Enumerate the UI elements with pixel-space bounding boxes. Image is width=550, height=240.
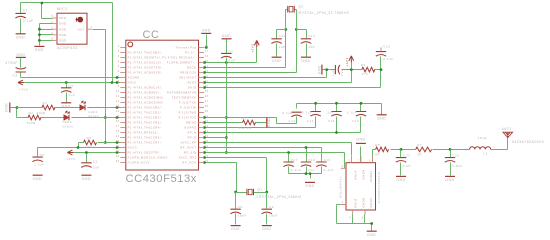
svg-text:16P: 16P [308,45,315,49]
svg-text:C19: C19 [324,158,331,162]
MIC1 pins [52,17,57,19]
svg-text:56k 1%: 56k 1% [239,126,252,130]
svg-text:2: 2 [348,160,350,163]
wire C2 top stem [20,3,22,14]
svg-text:P1.4/TA1.UCB0SOMI/..: P1.4/TA1.UCB0SOMI/.. [128,101,167,105]
svg-text:P1.7/TA1.UCA0CLK/..: P1.7/TA1.UCA0CLK/.. [128,61,164,65]
svg-text:+3V3: +3V3 [66,157,75,161]
wire C4 stem from +3V3 row [66,83,68,88]
node r4 junctions [203,61,228,64]
svg-text:1uF: 1uF [229,59,236,63]
MCU right pin names [162,46,196,165]
MCU right pin stubs and numbers [199,48,205,163]
svg-text:37: 37 [205,100,209,103]
ground below balun [367,230,377,232]
capacitor C13 [291,112,301,117]
svg-text:C6: C6 [229,49,234,53]
wire MIC OUT down to LED2/R6 column [93,30,106,143]
wire pin r9 row to R4/C10 node [205,57,381,88]
crystal Q2 [288,6,295,13]
svg-text:C18: C18 [308,158,315,162]
wire thermal pad pin to GND above [205,35,207,48]
svg-text:0.1uF: 0.1uF [347,110,357,114]
svg-text:RF_P: RF_P [188,136,197,140]
svg-text:+3V3: +3V3 [345,57,349,66]
node r7 junctions [203,68,328,79]
svg-text:Green: Green [88,114,99,118]
svg-text:44: 44 [205,65,209,68]
svg-text:DVCC: DVCC [128,146,138,150]
wire pin r7 row to side GND / C21 [205,70,336,78]
svg-text:6: 6 [118,70,120,73]
wire R6 row to pin 20 [79,143,121,148]
svg-text:P1.4/TA1.TA0CCR0/..: P1.4/TA1.TA0CCR0/.. [128,106,164,110]
ground below decoupling rail [377,114,387,116]
node r23 junctions [203,156,268,193]
svg-text:GUARD: GUARD [184,126,196,130]
wire pin r5 row to crystal Q2 left [205,30,286,68]
wire pin r24 row to crystal Q1 left [205,163,237,193]
svg-text:GND: GND [35,48,44,52]
sideways ground left of C21 [321,65,323,75]
svg-text:R7: R7 [417,143,422,147]
svg-text:P1.4/TA1.TA0CCR3/..: P1.4/TA1.TA0CCR3/.. [128,121,164,125]
wire MIC GND pins to ground rail [40,24,53,46]
capacitor C8 [230,209,240,214]
svg-text:CRYSTAL_2PIN_32.768KHZ: CRYSTAL_2PIN_32.768KHZ [296,11,349,15]
svg-text:4: 4 [342,201,344,204]
svg-text:P1.4/TA1.RF2GUA/..: P1.4/TA1.RF2GUA/.. [162,56,196,60]
svg-text:470NF: 470NF [5,61,17,65]
svg-text:30: 30 [205,135,209,138]
svg-text:P1.4/TA1.UCB0ES/..: P1.4/TA1.UCB0ES/.. [128,91,162,95]
node RF row junctions [400,148,452,151]
svg-text:8: 8 [118,80,120,83]
node C6 vertical junctions [225,116,228,154]
wire pin r17 row to C14 bottom [205,117,316,128]
svg-text:C5: C5 [40,153,45,157]
supply +3V3 arrow up right of C6 [254,40,259,47]
capacitor C14 [310,112,320,117]
svg-text:P1.6/TA1.CBOWTV/..: P1.6/TA1.CBOWTV/.. [128,56,163,60]
MCU U1 CC430F513x box [126,40,199,170]
svg-text:GND: GND [59,33,66,37]
capacitor C11 [271,39,281,44]
capacitor C18 [301,162,311,167]
svg-text:P.JLS/TCK: P.JLS/TCK [179,101,197,105]
svg-text:31: 31 [205,130,209,133]
wire pin r20 row to balun top-left pin [205,143,352,156]
svg-text:Thermal Pad: Thermal Pad [175,46,196,50]
node r19 junction [203,136,206,139]
svg-text:BALB: BALB [354,198,358,207]
svg-text:C12: C12 [308,34,315,38]
svg-text:47: 47 [205,50,209,53]
svg-text:11: 11 [116,95,120,98]
capacitor C3 [16,67,26,72]
wire pin r19 row to C6 vertical [205,137,227,139]
svg-text:P1.4/TA1.TA0CCR6/..: P1.4/TA1.TA0CCR6/.. [128,136,164,140]
resistor R6 [84,140,97,145]
svg-text:GND: GND [445,178,454,182]
node OUT column junctions [104,116,107,144]
svg-text:RBIAS: RBIAS [186,121,197,125]
svg-text:Green: Green [62,124,73,128]
svg-text:FLOPB_SMBWTI..: FLOPB_SMBWTI.. [167,61,197,65]
wire +3V3 row to pin 22 with C1 stem [73,153,121,163]
wire C6 long vertical to row r22 [226,63,228,153]
node r6 junctions [203,28,298,74]
supply +3V3 arrow up right of C21 [349,56,354,63]
capacitor C15 [331,112,341,117]
svg-text:18pF: 18pF [269,213,278,217]
svg-text:P1.4/TA1.TA0CCR4/..: P1.4/TA1.TA0CCR4/.. [128,126,164,130]
LED LED1 [80,105,85,111]
svg-text:+3V3: +3V3 [250,44,254,53]
node thermal pin junction [205,46,208,49]
svg-text:RF_XOUT: RF_XOUT [180,146,196,150]
svg-text:13: 13 [116,105,120,108]
svg-text:2pF: 2pF [327,110,334,114]
svg-text:3: 3 [342,165,344,168]
svg-text:AVCC_RF: AVCC_RF [181,141,197,145]
svg-text:23: 23 [116,155,120,158]
svg-text:POTASBASBATVB: POTASBASBATVB [167,91,197,95]
svg-text:18: 18 [116,130,120,133]
wire balun mid pin to GND above [360,147,362,163]
svg-text:DVIO: DVIO [188,86,197,90]
svg-text:CC: CC [143,29,160,41]
svg-text:C1: C1 [93,159,98,163]
svg-text:3: 3 [118,55,120,58]
resistor R3 [243,120,256,125]
ground below C8 [231,225,241,227]
node r24 junctions [203,161,237,193]
svg-text:P.JLS/TMS: P.JLS/TMS [179,111,197,115]
svg-text:C15: C15 [328,119,335,123]
svg-text:GNDA: GNDA [361,169,365,179]
MCU left pin names [128,51,168,165]
capacitor C21 (horizontal) [335,65,339,74]
svg-text:24: 24 [116,160,120,163]
wire pin r18 row to C15/C16 bottoms [205,117,361,133]
svg-text:4: 4 [118,60,120,63]
svg-text:33: 33 [205,120,209,123]
wire left GND rail to LED row [11,108,17,118]
node r9 junctions [203,68,382,89]
svg-text:1uF: 1uF [68,93,75,97]
svg-text:GND: GND [356,137,365,141]
svg-text:GND: GND [16,35,25,39]
svg-text:25: 25 [205,160,209,163]
svg-text:CRYSTAL_2PIN_26MHZ: CRYSTAL_2PIN_26MHZ [256,195,301,199]
node r5 junctions [203,28,287,69]
node r22 junctions [203,151,290,154]
svg-text:GND: GND [301,59,310,63]
node pin22 junctions [85,151,118,154]
wire C9 to ground [266,214,268,225]
wire pin r8 row to C21/+3V3/R4 node [205,61,362,83]
svg-text:19: 19 [116,135,120,138]
svg-text:SEL/XOUT: SEL/XOUT [179,76,196,80]
svg-text:P1.4/TA1.UCB0CLK/..: P1.4/TA1.UCB0CLK/.. [128,86,164,90]
wire balun pin1 to RF row [373,150,376,163]
component MIC1 box [57,13,87,44]
node r17 junction [203,126,206,129]
ground below C9 [262,225,272,227]
svg-text:41: 41 [205,80,209,83]
wire pin r21 row to C18/C19 tops [205,148,322,163]
svg-text:1: 1 [369,160,371,163]
svg-text:39: 39 [205,90,209,93]
svg-text:GND: GND [62,104,71,108]
capacitor C16 [356,112,366,117]
capacitor C20 [445,158,455,163]
svg-text:9: 9 [118,85,120,88]
ground below C5 [33,174,43,176]
svg-text:0.1uF: 0.1uF [291,168,301,172]
node junction on top rail [41,2,44,5]
capacitor C5 [32,157,42,162]
svg-text:45: 45 [205,60,209,63]
svg-text:0.1uF: 0.1uF [23,19,34,23]
svg-text:18pF: 18pF [238,213,247,217]
svg-text:FLOPB_KCLV: FLOPB_KCLV [128,161,150,165]
svg-text:C3: C3 [12,74,17,78]
svg-text:P1.4/TA1.TA0CCR1/..: P1.4/TA1.TA0CCR1/.. [128,111,164,115]
svg-text:CC430F513x: CC430F513x [126,173,197,185]
svg-text:GND: GND [272,59,281,63]
svg-text:GND: GND [318,65,322,74]
svg-text:P1.4/TA1.CB2GTR/..: P1.4/TA1.CB2GTR/.. [128,151,162,155]
wire +3V3 row to MCU pin 8 [23,82,121,84]
resistor R1 [42,105,55,110]
svg-text:GND: GND [396,178,405,182]
wire C11 to ground [276,44,278,57]
svg-text:1uF: 1uF [331,69,335,76]
ground below C12 [301,56,311,58]
svg-text:GND: GND [33,177,42,181]
svg-text:RF_XIN: RF_XIN [184,151,197,155]
svg-text:C13: C13 [288,119,295,123]
svg-text:17: 17 [116,125,120,128]
node pin13 junction [116,106,119,109]
svg-text:BALA: BALA [354,170,358,179]
svg-text:C2: C2 [23,8,28,12]
node pin15 junction [116,116,119,119]
capacitor C9 [262,209,272,214]
node pin20 junctions [116,141,119,144]
svg-text:2pF: 2pF [308,168,315,172]
wire RF row R5 to antenna [391,138,508,150]
supply +3V3 arrow left row8 [18,80,24,85]
capacitor C6 [221,53,231,58]
capacitor C1 [81,163,91,168]
svg-text:29: 29 [205,140,209,143]
svg-text:12: 12 [116,100,120,103]
wire C12 to ground [306,44,308,57]
svg-text:P1.4/TA1.UCA0TXD/..: P1.4/TA1.UCA0TXD/.. [128,66,165,70]
svg-text:VDD: VDD [59,16,66,20]
ground below C1 [81,174,91,176]
svg-text:C17: C17 [291,158,298,162]
svg-text:47k: 47k [362,72,369,76]
svg-text:GND: GND [59,22,66,26]
svg-text:P1.4/TA1.UCB0EXD/..: P1.4/TA1.UCB0EXD/.. [128,71,165,75]
svg-text:32: 32 [205,125,209,128]
capacitor C2 [15,13,25,18]
svg-text:C22: C22 [403,154,410,158]
wire +3V3 top rail from C2 to MIC VDD and down right [21,3,113,83]
node pin21 junctions [77,146,119,149]
svg-text:GND: GND [16,53,25,57]
svg-text:14: 14 [116,110,120,113]
svg-text:C4: C4 [68,84,73,88]
svg-text:16P: 16P [279,45,286,49]
svg-text:GND: GND [262,227,271,231]
svg-text:GND: GND [367,233,376,237]
svg-text:GND: GND [5,103,9,112]
svg-text:1: 1 [118,45,120,48]
svg-text:MIC1: MIC1 [57,7,68,11]
ground below C22 [396,175,406,177]
wire C20 stems [450,150,452,176]
svg-text:5: 5 [350,216,352,219]
svg-text:P1.4/TA1.TA0CCR7/..: P1.4/TA1.TA0CCR7/.. [128,141,164,145]
node pin7 junction [116,76,119,79]
ground below C20 [445,175,455,177]
antenna ANT1 [503,132,513,137]
svg-text:R1: R1 [43,101,48,105]
svg-text:Q1: Q1 [257,187,262,191]
node decoupling rail junctions [314,102,362,105]
capacitor C4 [61,88,71,93]
svg-text:34: 34 [205,115,209,118]
svg-text:0.1uF: 0.1uF [324,168,334,172]
svg-text:2: 2 [52,21,54,24]
svg-text:GND: GND [59,27,66,31]
svg-text:36: 36 [205,105,209,108]
MIC1 speaker dot icon [77,17,83,23]
svg-text:Q2: Q2 [298,4,303,8]
resistor R5 [376,147,389,152]
wire pin r15 row to C13 bottom [205,117,297,124]
node GND rail junction [16,106,19,109]
node r18 junctions [203,131,338,134]
svg-text:ANT1: ANT1 [502,127,512,131]
svg-text:TEST/SBWTCK: TEST/SBWTCK [172,96,197,100]
svg-text:FLOPB_MODCLK_GMUX: FLOPB_MODCLK_GMUX [128,156,168,160]
svg-text:GND: GND [202,29,211,33]
wire C6 stems [226,40,228,63]
svg-text:P1.4/TA1.RF0022/..: P1.4/TA1.RF0022/.. [128,131,161,135]
wire junction drop to MIC VDD pin 5 [42,3,53,19]
svg-text:15: 15 [116,115,120,118]
svg-text:P.JLS/TDO: P.JLS/TDO [179,116,197,120]
resistor R4 [362,67,375,72]
svg-text:R4: R4 [361,63,366,67]
ground below C17 C18 C19 [305,181,315,183]
svg-text:2.2uF: 2.2uF [34,162,44,166]
svg-text:GND: GND [267,118,271,127]
svg-text:BALUN0433: BALUN0433 [339,176,343,198]
svg-text:2: 2 [118,50,120,53]
svg-text:GND: GND [59,39,66,43]
wire C8 to ground [235,214,237,225]
svg-text:XCORE: XCORE [128,76,140,80]
svg-text:R6: R6 [87,136,92,140]
svg-text:28: 28 [205,145,209,148]
node r15 junction [203,116,206,119]
svg-text:P1.4/TA1.TA0CDBA/..: P1.4/TA1.TA0CDBA/.. [128,51,164,55]
svg-text:OUT: OUT [78,27,85,31]
MCU pin1 mark [128,42,133,47]
svg-text:DVIO: DVIO [128,81,137,85]
ground below C11 [272,56,282,58]
wire pin r16 row to R3 [205,122,267,124]
inductor L1 [470,147,491,150]
node r16 junction [203,121,206,124]
svg-text:C16: C16 [352,119,359,123]
wire pin r23 row to crystal Q1 right [205,158,267,193]
svg-text:7: 7 [358,160,360,163]
wire pin r6 row to crystal Q2 right [205,30,297,73]
svg-text:PRJB/12V: PRJB/12V [180,71,197,75]
svg-text:6: 6 [52,38,54,41]
svg-text:GND: GND [305,184,314,188]
svg-text:100k: 100k [85,145,94,149]
resistor R7 [416,147,432,152]
node C18 bottom junctions [305,172,312,175]
svg-text:P1.4/TA1.UCB0SIMO/..: P1.4/TA1.UCB0SIMO/.. [128,96,167,100]
svg-text:P1.4/TA1.TA0CCR2/..: P1.4/TA1.TA0CCR2/.. [128,116,164,120]
svg-text:0433BNF0A00201: 0433BNF0A00201 [377,171,381,203]
balun pin stubs [341,156,373,215]
node pin8 row junctions [65,81,119,84]
node balun ground junctions [370,222,373,225]
wire crystal Q1 legs [236,193,267,209]
balun U2 box [346,163,376,210]
svg-text:C21: C21 [340,69,344,76]
svg-text:P.JLS/TDI: P.JLS/TDI [180,106,197,110]
ground below C4 [61,102,71,104]
svg-text:GNDC: GNDC [369,197,373,207]
node r8 junctions [203,68,353,84]
wire pin r22 row to balun pin3 and C17 top [205,153,345,169]
svg-text:5: 5 [118,65,120,68]
svg-text:RF_VGO: RF_VGO [182,161,196,165]
svg-text:P2.1/..: P2.1/.. [185,51,196,55]
svg-text:40: 40 [205,85,209,88]
svg-text:16: 16 [116,120,120,123]
svg-text:C9: C9 [269,205,274,209]
wire balun pin4 loop to bottom ground rail [337,205,372,224]
MCU left pin stubs and numbers [120,48,126,163]
capacitor C17 [283,162,293,167]
svg-text:ACMP401: ACMP401 [57,46,78,50]
svg-text:+3V3: +3V3 [19,88,28,92]
sideways ground right of R3 [266,118,268,128]
svg-text:0.1uF: 0.1uF [302,110,312,114]
svg-text:42: 42 [205,75,209,78]
svg-text:4: 4 [52,32,54,35]
svg-text:0.1uF: 0.1uF [282,111,292,115]
svg-text:300R: 300R [27,121,37,125]
svg-text:7: 7 [118,75,120,78]
node r21 junctions [203,146,307,149]
wire C5 row to pin 21 [38,148,121,157]
LED LED2 [64,115,69,121]
